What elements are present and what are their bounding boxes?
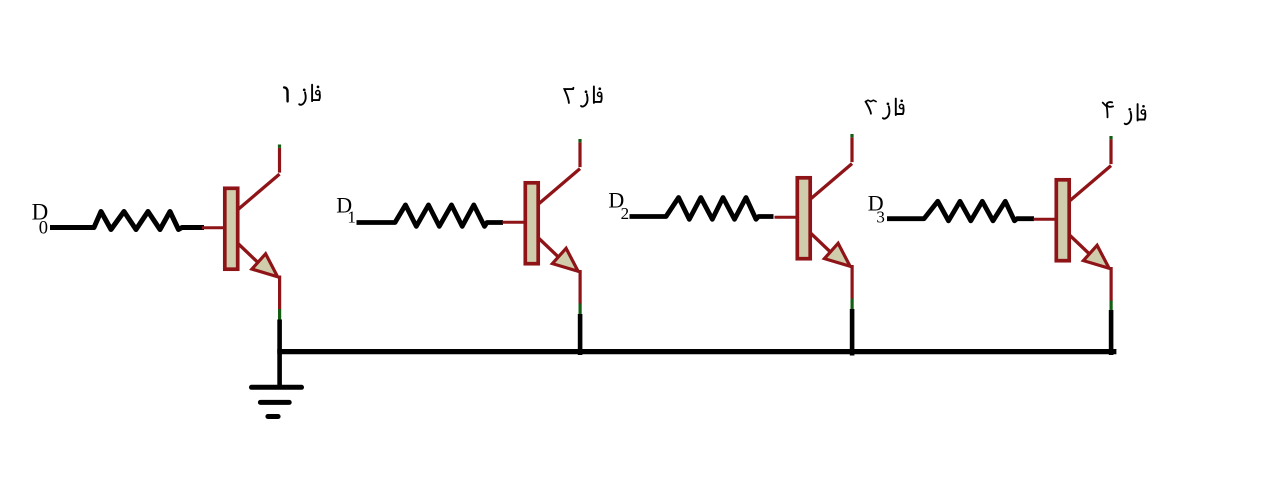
phase 1 label فاز ۱	[284, 85, 320, 105]
ground bar 1	[252, 385, 302, 390]
ground bar 3	[268, 414, 278, 419]
digit ۳ stem	[866, 102, 871, 114]
phase 2 label فاز ۲	[564, 87, 601, 107]
digit ۳ top zigzag	[865, 100, 876, 102]
svg-text:1: 1	[347, 208, 356, 227]
svg-text:3: 3	[876, 207, 885, 226]
transistor Q1	[202, 145, 280, 321]
resistor R2 with leads	[357, 205, 504, 226]
wire Q4 emitter to rail	[1109, 310, 1114, 355]
wire Q3 emitter to rail	[850, 309, 855, 356]
transistor Q4	[1034, 136, 1112, 312]
ground bar 2	[260, 400, 289, 405]
svg-text:2: 2	[621, 204, 630, 223]
transistor Q3	[775, 134, 853, 310]
resistor R1 with leads	[50, 212, 204, 230]
wire Q2 emitter to rail	[578, 314, 583, 355]
svg-text:0: 0	[39, 219, 48, 239]
phase 3 label فاز ۳	[865, 99, 903, 119]
wire Q1 emitter to ground stem	[277, 320, 282, 388]
digit ۲	[564, 88, 573, 103]
common emitter rail wire	[277, 349, 1116, 354]
digit ۴	[1103, 102, 1113, 117]
digit ۱	[284, 87, 288, 101]
resistor R3 with leads	[630, 198, 774, 220]
phase 4 label فاز ۴	[1103, 102, 1146, 124]
resistor R4 with leads	[887, 201, 1034, 221]
transistor Q2	[503, 139, 581, 315]
